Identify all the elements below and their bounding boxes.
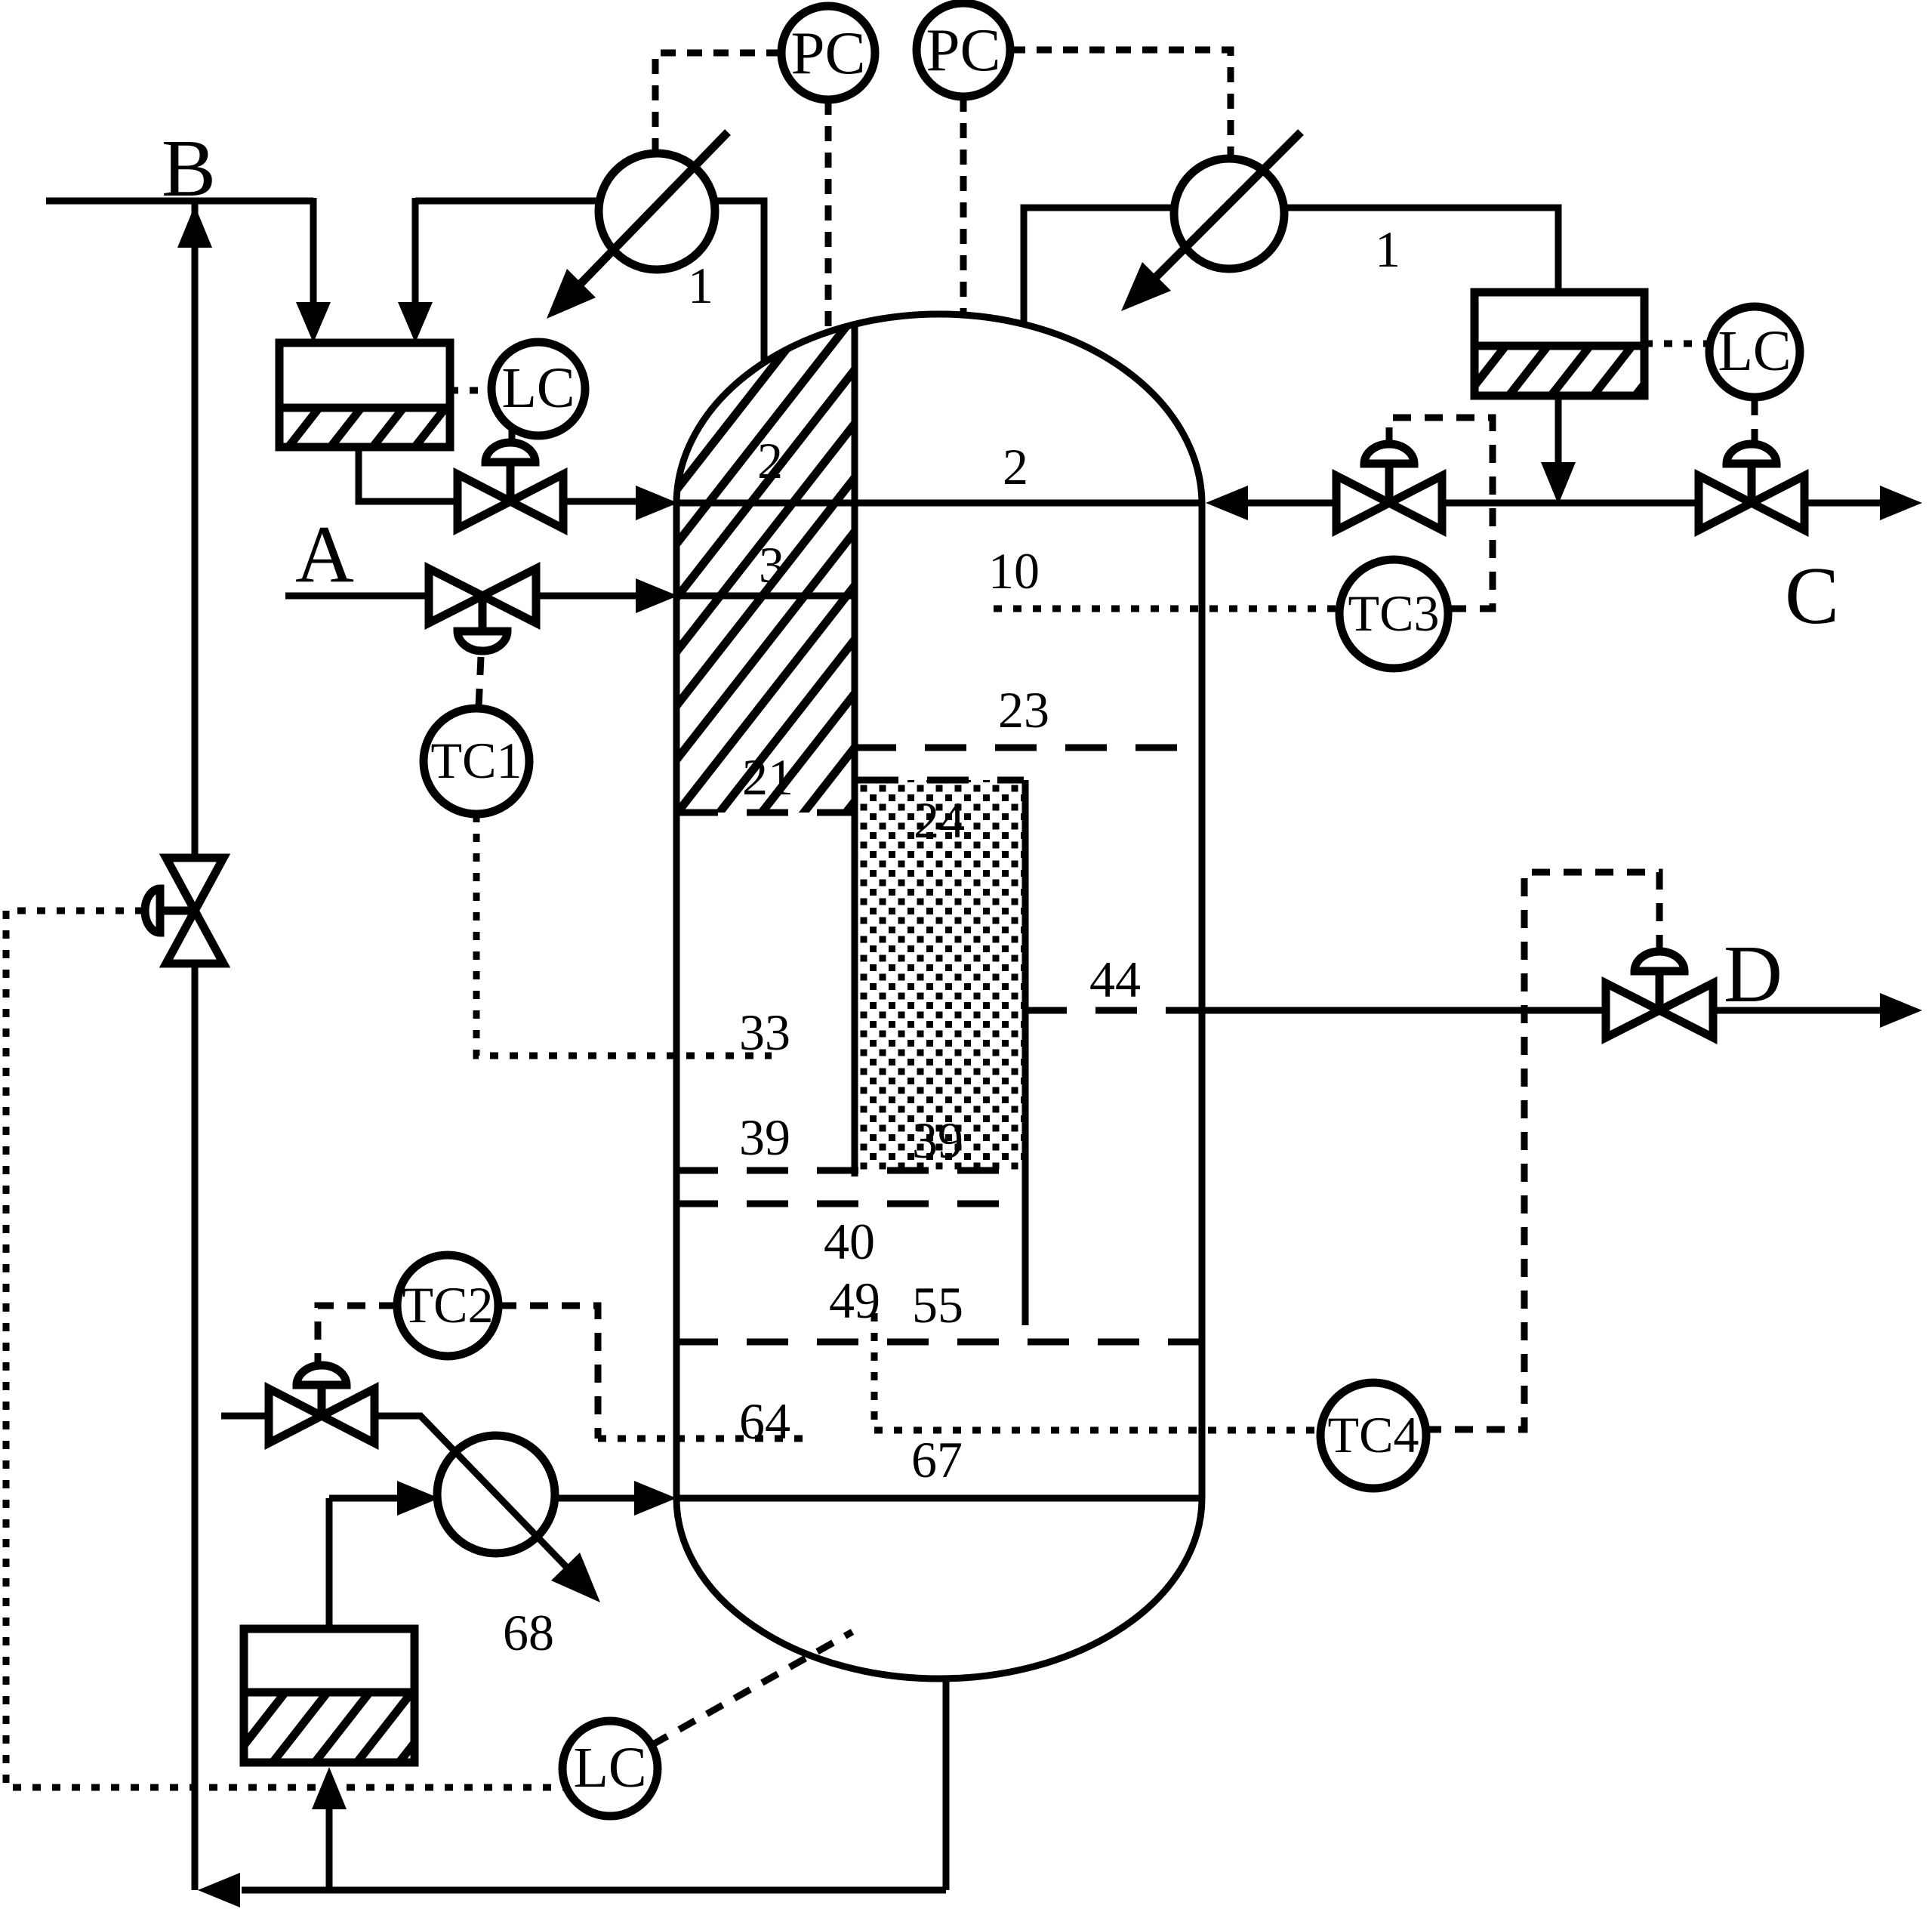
svg-text:21: 21 [742,748,793,806]
svg-text:TC4: TC4 [1328,1406,1419,1463]
signal line LC to reflux valve [509,429,516,456]
control valve on product C line [1699,444,1804,530]
signal line TC2 to steam valve [318,1306,397,1367]
column packing hatched region (top left section) [676,324,855,813]
signal line tray 10 to TC3 [994,606,1339,612]
control valve on product D line [1606,951,1713,1038]
controller PC2 [917,3,1010,97]
svg-text:55: 55 [912,1276,963,1334]
wire right drum outlet down to product line [1555,396,1562,462]
wire valve A to column (stream 3) [536,593,637,600]
svg-text:PC: PC [790,19,865,87]
wire side draw 44 to product D [1202,1007,1606,1014]
wire reboiler feed from drum [329,1495,399,1502]
column vessel shell [676,314,1202,1679]
wire steam through reboiler (stream 68) [374,1416,570,1571]
svg-text:2: 2 [757,432,783,489]
signal line right drum to LC [1644,341,1711,347]
controller TC3 [1339,560,1448,668]
svg-text:39: 39 [739,1109,790,1166]
svg-text:A: A [295,510,354,600]
tray line 2 (top feed line across column) [676,500,1202,507]
condenser 1 (left heat exchanger) [547,132,728,319]
svg-text:10: 10 [988,542,1040,600]
reboiler heat exchanger [437,1436,555,1553]
svg-text:49: 49 [829,1272,880,1329]
reflux drum left [279,343,450,447]
wire reflux drum outlet to valve [359,447,458,501]
column packing dotted region 24 [858,780,1024,1170]
control valve on left reflux line [458,443,563,529]
wire condenser left outlet to column dome [715,201,764,362]
right wall of dotted region / internal downcomer [1022,780,1029,1325]
svg-text:40: 40 [824,1213,875,1270]
signal line TC1 down and to tray 33 [476,814,772,1056]
svg-text:24: 24 [914,791,965,849]
dashed tray line 55 [676,1339,1202,1346]
signal line drum to LC [450,387,491,394]
wire product C outlet [1804,500,1881,507]
svg-text:B: B [162,124,216,214]
signal line PC2 to column top [960,97,967,313]
svg-text:LC: LC [573,1736,646,1799]
signal loop TC3 to right reflux valve [1389,418,1493,609]
wire B top horizontal line [46,198,313,205]
signal loop D valve to TC4 [1429,872,1659,1429]
wire bottoms line up into drum [326,1809,333,1890]
wire drop into reflux drum (condensate) [412,198,419,302]
partition wall at hatch boundary [852,324,858,1176]
signal line PC2 to condenser 1 (right) [1010,50,1231,159]
controller LC (left reflux drum) [491,342,585,436]
wire steam inlet stub [221,1413,269,1420]
svg-text:1: 1 [1375,220,1400,278]
signal line PC1 to condenser 1 (left) [655,53,781,153]
svg-text:1: 1 [688,257,713,314]
svg-text:D: D [1724,930,1783,1019]
signal line PC1 to column top [825,100,832,328]
wire valve to column (stream 2 left) [563,498,637,505]
controller TC1 [424,708,529,814]
svg-text:LC: LC [501,356,575,420]
controller PC1 [781,6,875,100]
signal line LC to product C valve [1752,397,1758,447]
wire drop into reflux drum (B feed) [310,198,317,302]
controller TC2 [397,1255,498,1356]
signal line A valve to TC1 [479,657,481,707]
svg-text:44: 44 [1089,951,1141,1008]
control valve on right reflux line [1336,444,1442,530]
svg-text:TC1: TC1 [431,732,522,789]
svg-text:67: 67 [911,1431,963,1488]
svg-text:C: C [1785,551,1839,641]
wire right condenser to right drum [1284,208,1558,292]
svg-text:TC3: TC3 [1348,584,1440,642]
svg-text:PC: PC [926,16,1000,84]
signal line LC to column level [652,1632,852,1745]
svg-text:2: 2 [1003,438,1028,495]
dashed bottom of hatched packing (node 21) [676,810,855,816]
wire condensate return horizontal [415,198,599,205]
steam outlet arrow 68 [551,1553,600,1602]
condenser 1 (right heat exchanger) [1121,132,1301,311]
wire reboiler return to column [555,1495,636,1502]
dashed bottom of dotted region (tray 39) [676,1167,1024,1174]
signal tap at tray 49 [871,1313,878,1430]
dashed top of dotted region 24 [857,777,1024,784]
signal line TC2 to tray 64 [498,1306,598,1439]
signal line bottom LC to B valve (left loop) [6,911,565,1787]
svg-text:33: 33 [739,1004,790,1061]
wire bottoms recycle to B line [242,1887,946,1894]
dashed tray line 40 [676,1201,1021,1207]
controller TC4 [1320,1383,1426,1488]
svg-text:23: 23 [998,681,1049,739]
svg-text:LC: LC [1718,319,1791,383]
wire drum riser to reboiler line [326,1498,333,1629]
wire column dome to right condenser [1024,208,1174,324]
svg-text:TC2: TC2 [402,1276,494,1334]
dashed tray line 23 [855,745,1202,751]
wire column bottoms drain [943,1679,950,1890]
wire feed A [285,593,429,600]
arrow up on B recycle line [177,205,212,248]
svg-text:3: 3 [759,536,784,594]
control valve on steam line [269,1365,374,1443]
wire reflux return into column (stream 2 right) [1248,500,1699,507]
dashed side draw line 44 (inside column) [1025,1007,1202,1014]
bottoms drum [244,1629,414,1762]
reflux drum right [1474,292,1644,396]
control valve on B recycle line (vertical) [145,858,223,964]
control valve on feed A [429,569,536,651]
svg-text:68: 68 [503,1604,554,1661]
svg-text:64: 64 [739,1392,790,1450]
wire B recycle vertical [192,201,199,1890]
signal line tray sensor to TC4 [874,1427,1320,1434]
tray line 3 (feed A line inside column) [676,593,855,600]
svg-text:39: 39 [912,1112,963,1169]
controller LC (column bottom) [562,1721,658,1816]
controller LC (right drum) [1709,307,1800,397]
